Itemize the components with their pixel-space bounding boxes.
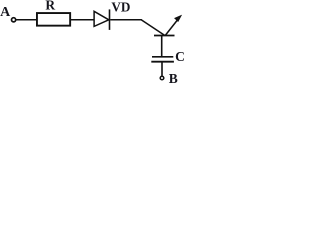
svg-text:B: B bbox=[169, 71, 178, 85]
svg-text:C: C bbox=[175, 49, 185, 64]
svg-text:A: A bbox=[0, 5, 11, 20]
svg-text:R: R bbox=[45, 0, 55, 13]
svg-text:VD: VD bbox=[111, 0, 130, 14]
